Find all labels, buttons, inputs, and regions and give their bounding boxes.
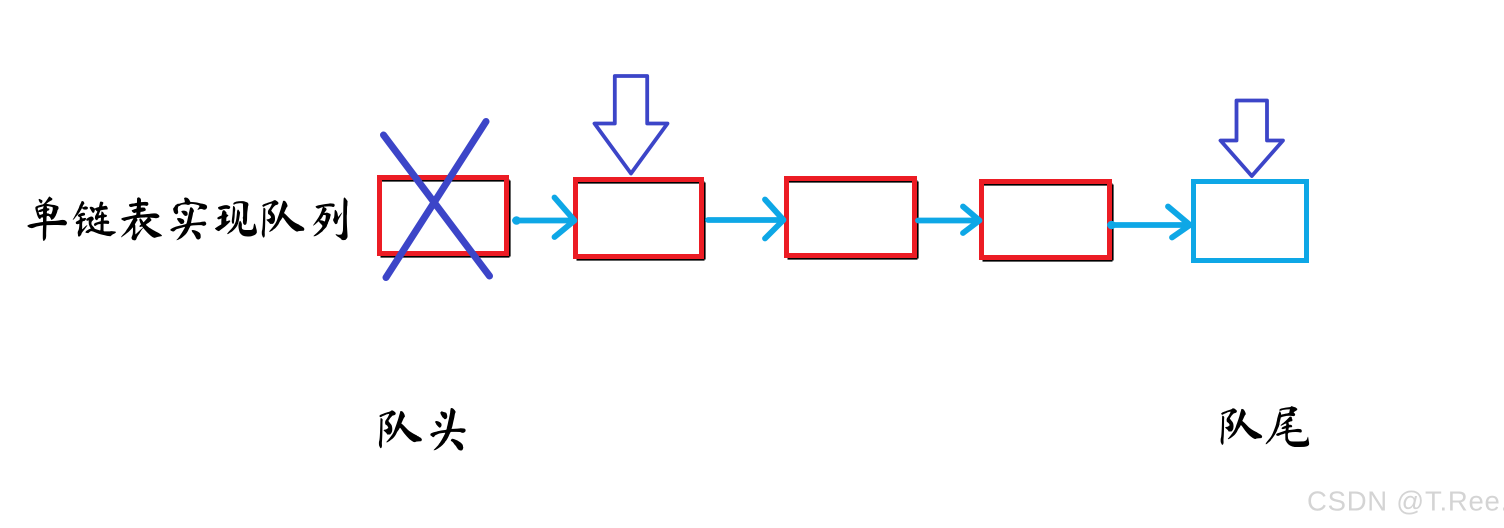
enqueue pointer arrow above box 5 <box>1221 101 1284 177</box>
label 队头 (queue head) <box>379 408 466 450</box>
link arrow 1 <box>512 198 574 238</box>
link arrow 4 <box>1107 207 1190 238</box>
node box 1 (dequeued head) <box>380 178 510 257</box>
node box 5 (tail, newly enqueued) <box>1194 182 1307 261</box>
svg-text:CSDN @T.Ree.: CSDN @T.Ree. <box>1307 486 1504 517</box>
link arrow 2 <box>708 200 784 239</box>
node box 3 <box>787 179 918 259</box>
label 队尾 (queue tail) <box>1221 406 1310 447</box>
title text 单链表实现队列 <box>27 197 347 241</box>
dequeue pointer arrow above box 2 <box>595 76 668 174</box>
X cross-out over node box 1 <box>384 122 490 278</box>
link arrow 3 <box>918 207 980 234</box>
node box 2 <box>576 180 705 260</box>
node box 4 <box>982 182 1113 261</box>
